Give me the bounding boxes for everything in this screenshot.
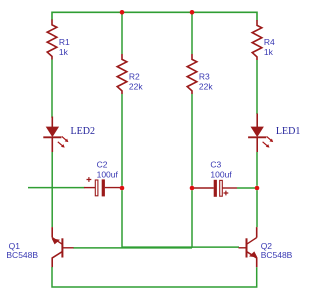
wire: bottom ground rail with emitter legs [52,267,257,287]
svg-text:R3: R3 [199,72,210,82]
svg-text:LED2: LED2 [71,126,95,137]
LED D2 [43,117,68,153]
resistor R1 [47,20,57,60]
resistor R3 [187,54,197,94]
wire: R2 bottom to C2 node [121,94,123,186]
transistor Q2 [239,227,258,267]
wire: LED2 to Q1 collector [51,152,53,227]
wire: R3 bottom to C3 node [191,94,193,186]
transistor Q1 [52,227,74,267]
node: junction dot C2 right (122,188) [120,186,125,191]
svg-text:BC548B: BC548B [261,250,293,260]
capacitor C3 [192,180,237,197]
svg-text:R1: R1 [59,37,70,47]
svg-text:100uf: 100uf [210,170,232,180]
capacitor C2 [84,177,122,196]
svg-text:LED1: LED1 [276,126,300,137]
node: junction dot top right (192,12) [190,10,195,15]
wire: base cross rail B (R2/C2 node to Q2 base) [122,246,239,248]
node: junction dot top left (122,12) [120,10,125,15]
svg-text:BC548B: BC548B [6,250,38,260]
wire: C2 left branch [28,187,85,189]
LED D1 [248,114,273,153]
wire: C3 right lead to LED1 column [237,187,255,189]
resistor R2 [117,54,127,94]
svg-text:22k: 22k [129,82,143,92]
wire: R1 to LED2 [51,60,53,118]
node: junction dot right column (257,188) [255,186,260,191]
wire: R2 top feed x=122 [121,12,123,54]
svg-text:1k: 1k [59,47,69,57]
wire: base cross rail A (Q1 base to R3/C3 node) [73,247,192,249]
svg-text:C2: C2 [97,160,108,170]
resistor R4 [252,20,262,60]
wire: C3 node down to Q2 collector [256,190,258,227]
svg-text:22k: 22k [199,82,213,92]
wire: R4 to LED1 [256,60,258,114]
svg-text:1k: 1k [264,47,274,57]
wire: C2 node down to base rail [121,190,123,248]
node: junction dot C3 left (192,188) [190,186,195,191]
wire: C3 node down to base rail [191,190,193,248]
svg-text:R4: R4 [264,37,275,47]
svg-text:100uf: 100uf [97,170,119,180]
wire: top supply rail with end stubs [52,12,257,20]
wire: R3 top feed x=192 [191,12,193,54]
svg-text:C3: C3 [210,160,221,170]
svg-text:R2: R2 [129,72,140,82]
wire: LED1 down to C3 node [256,152,258,186]
